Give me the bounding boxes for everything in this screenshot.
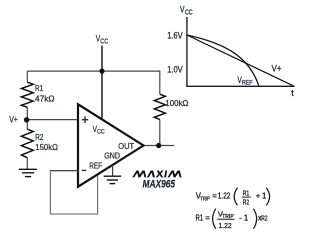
REF feedback box (50, 171, 97, 214)
wire: output (144, 145, 175, 147)
svg-text:REF: REF (242, 79, 253, 86)
op-amp plus input symbol (82, 116, 88, 123)
wire: VCC rail top horizontal with right drop to 100k (27, 71, 160, 94)
svg-text:R1: R1 (35, 83, 43, 93)
MAXIM logo (132, 171, 181, 178)
svg-text:V+: V+ (9, 115, 18, 125)
ground R2 (19, 169, 37, 176)
svg-text:+: + (256, 192, 261, 201)
wire: V+ node to op-amp + input (27, 119, 79, 121)
svg-text:TRIP: TRIP (200, 197, 210, 203)
svg-text:1.6V: 1.6V (167, 30, 183, 40)
svg-text:OUT: OUT (118, 142, 134, 151)
wire: VCC stub down to op-amp (101, 46, 103, 119)
op-amp U1 MAX965 (78, 104, 144, 186)
op-amp minus input symbol (82, 169, 87, 171)
svg-text:R2: R2 (261, 213, 267, 222)
svg-text:100kΩ: 100kΩ (165, 98, 188, 108)
svg-text:150kΩ: 150kΩ (35, 142, 58, 152)
node V+ junction (24, 117, 29, 122)
svg-text:R2: R2 (243, 198, 250, 207)
resistor R3 100k (154, 94, 165, 119)
ground op-amp GND (104, 176, 122, 183)
graph axes (187, 17, 295, 86)
wire: left rail top lead (26, 71, 28, 82)
wire: GND pin lead (112, 165, 114, 176)
svg-text:1: 1 (262, 192, 266, 201)
svg-text:CC: CC (185, 9, 193, 16)
svg-text:=: = (205, 213, 210, 222)
svg-text:R2: R2 (35, 132, 43, 142)
node output junction (156, 143, 161, 148)
formula R1 = (VTRIP/1.22 - 1) x R2 (196, 209, 268, 230)
wire: R1 to V+ node (26, 107, 28, 129)
svg-text:MAX965: MAX965 (143, 179, 176, 191)
svg-text:- 1: - 1 (239, 213, 248, 222)
formula VTRIP = 1.22 (R1/R2 + 1) (196, 188, 270, 207)
svg-text:1.22: 1.22 (219, 221, 232, 230)
graph curve VREF arc (187, 35, 259, 86)
wire: R2 bottom to ground (26, 158, 28, 170)
svg-text:R1: R1 (243, 189, 250, 198)
wire: REF/minus input (box top edge doubles) (50, 170, 78, 172)
graph curve V+ straight discharge line (187, 35, 295, 86)
svg-text:1.22: 1.22 (218, 192, 231, 201)
svg-text:CC: CC (97, 129, 105, 136)
svg-text:CC: CC (100, 39, 108, 46)
node junction VCC rail (99, 69, 104, 74)
svg-text:1.0V: 1.0V (167, 65, 183, 75)
svg-text:47kΩ: 47kΩ (35, 93, 55, 103)
svg-text:REF: REF (89, 161, 102, 170)
svg-text:R1: R1 (196, 213, 204, 222)
resistor R1 (21, 82, 33, 107)
svg-text:=: = (212, 192, 217, 201)
wire: 100k bottom lead to output node (159, 119, 161, 145)
resistor R2 (21, 129, 33, 158)
svg-text:GND: GND (104, 152, 120, 161)
svg-text:V+: V+ (272, 63, 282, 73)
